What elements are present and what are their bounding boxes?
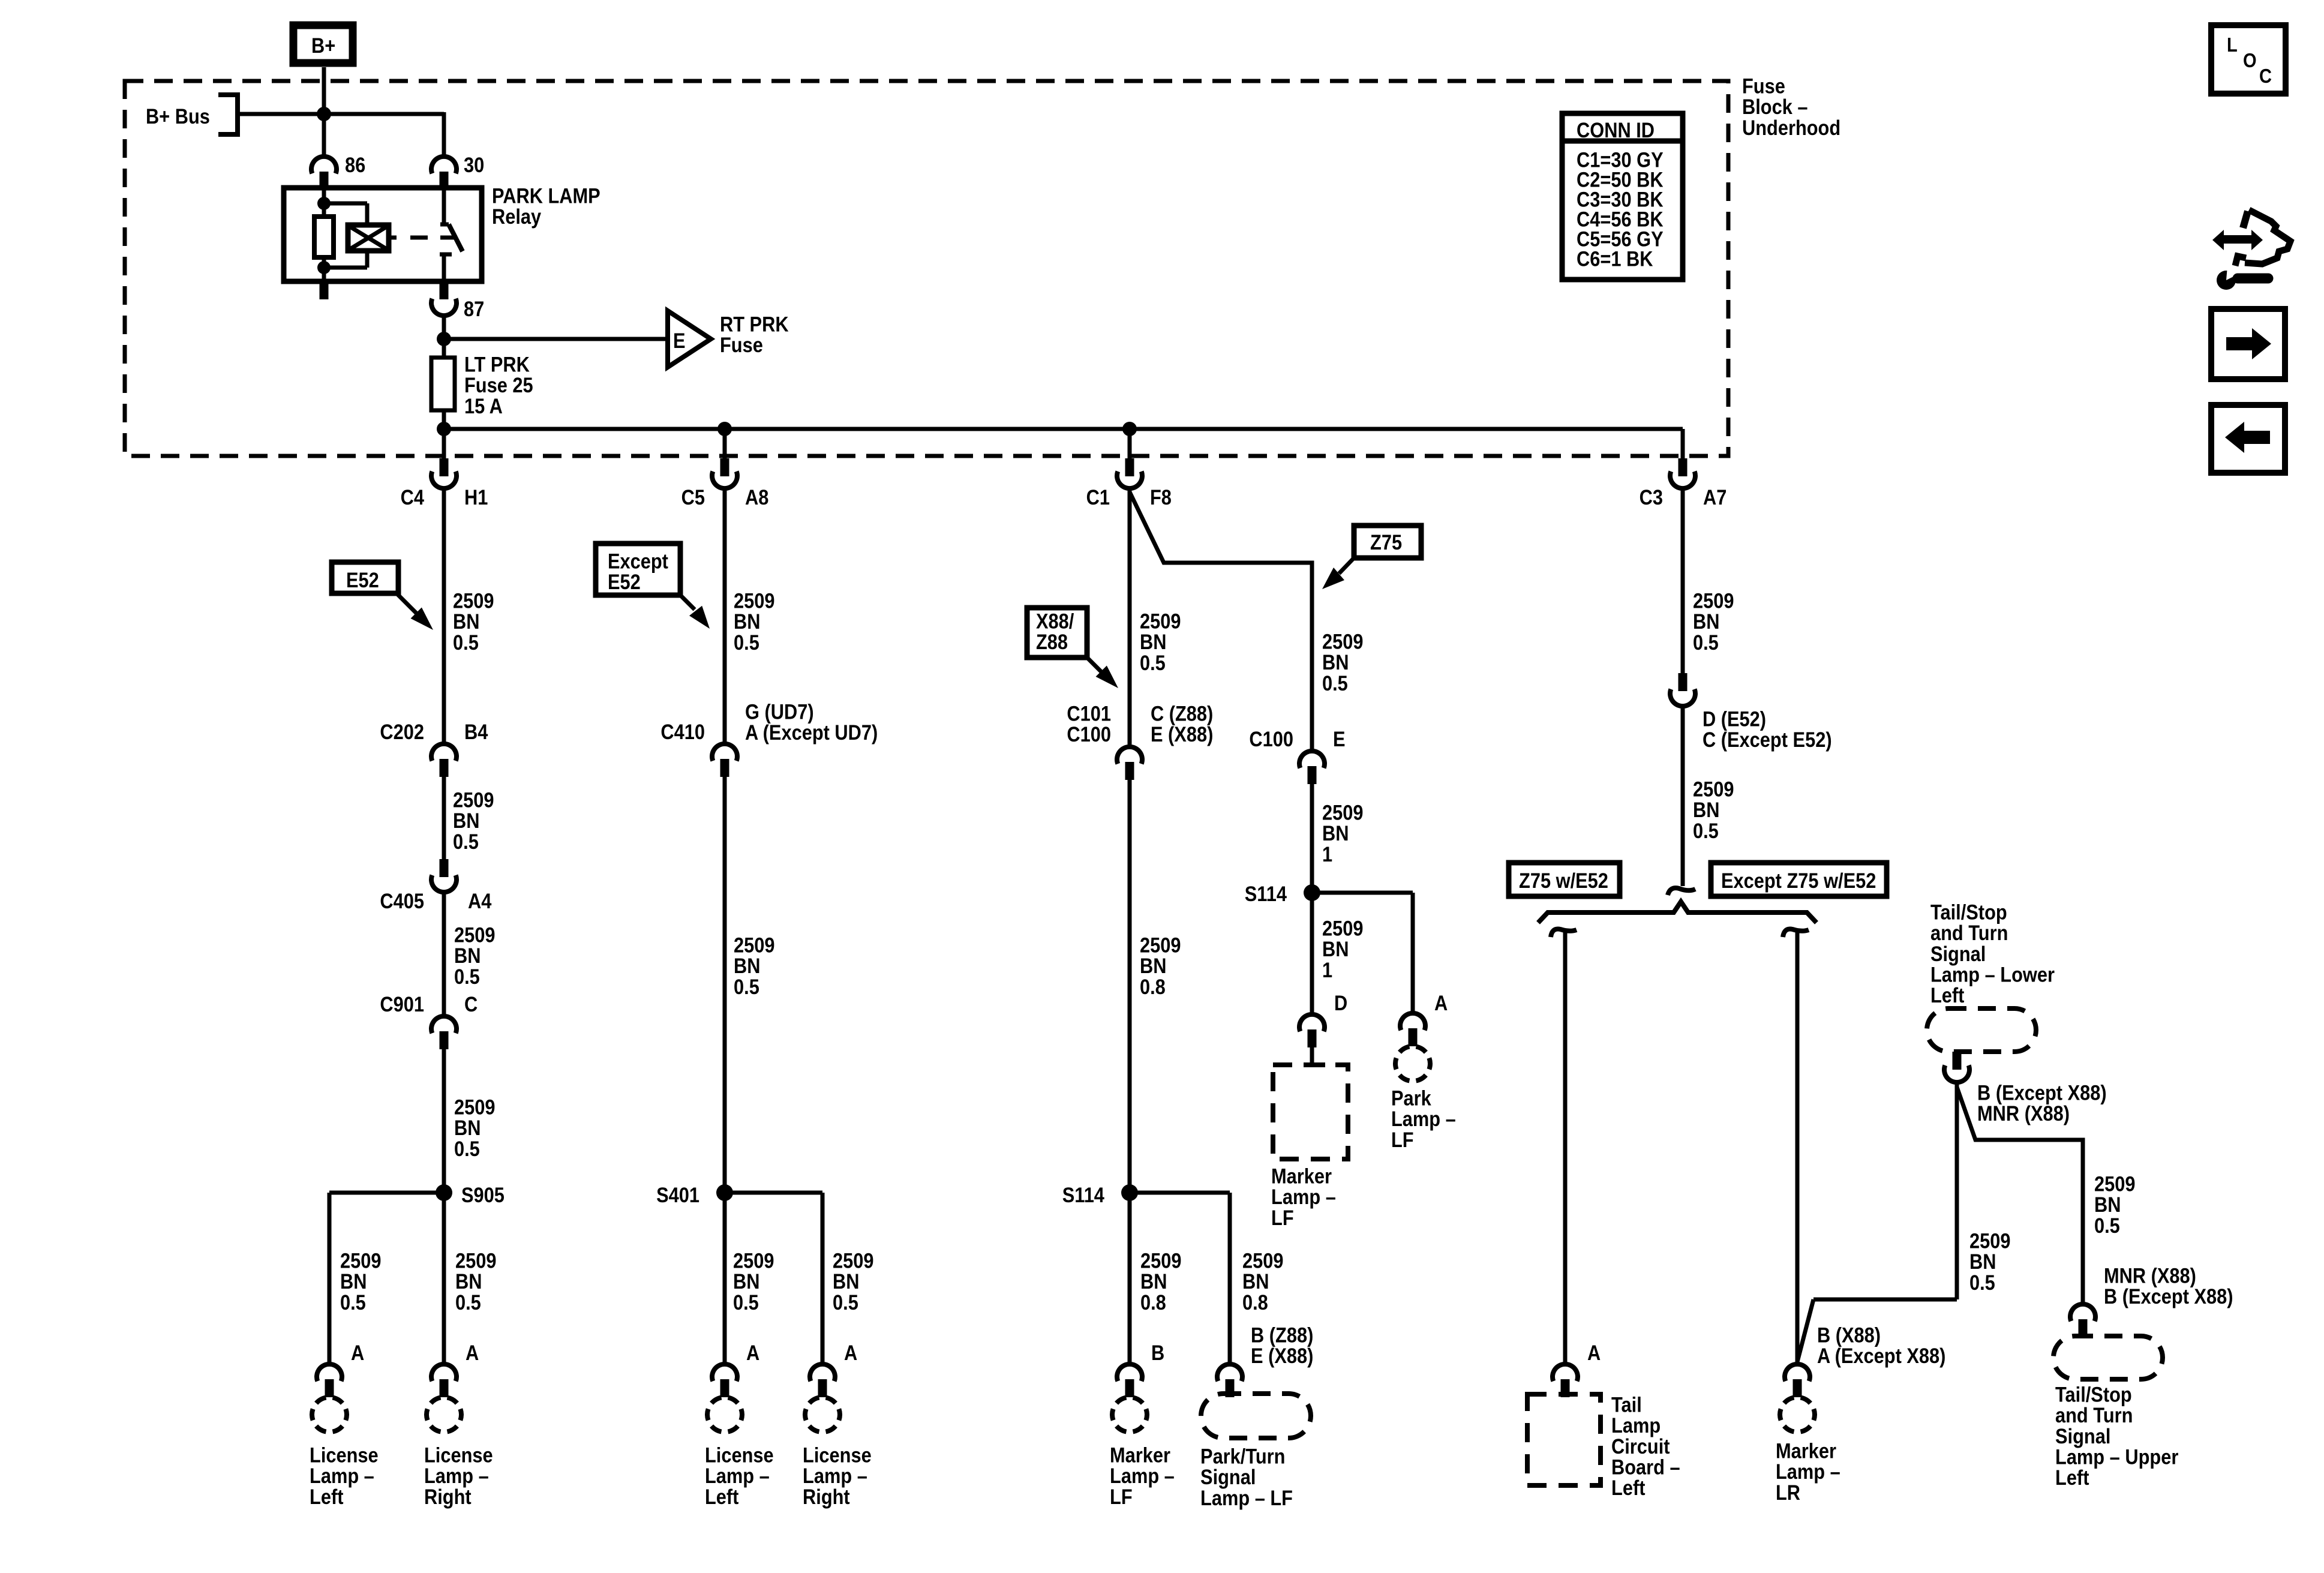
PARK LAMP Relay label (492, 184, 600, 229)
marker lamp LF terminal B (1112, 1341, 1164, 1431)
svg-text:BN: BN (453, 610, 479, 633)
wire S114 first right branch (1312, 893, 1413, 1012)
svg-text:G (UD7): G (UD7) (745, 700, 814, 724)
svg-text:C101: C101 (1067, 702, 1111, 725)
svg-text:D: D (1334, 991, 1347, 1014)
prev page left arrow icon (2211, 405, 2285, 473)
connector C4 label (401, 485, 488, 509)
park/turn signal lamp LF labels (1251, 1323, 1313, 1368)
wire C1 exit (1128, 429, 1132, 460)
svg-text:BN: BN (1242, 1269, 1269, 1293)
svg-text:BN: BN (734, 610, 760, 633)
svg-text:BN: BN (1693, 610, 1719, 633)
svg-text:C: C (2259, 65, 2272, 87)
wire C4 exit (442, 429, 446, 460)
svg-text:Park: Park (1391, 1086, 1431, 1110)
X88/Z88 option box (1027, 608, 1087, 658)
tail lamp circuit board dashed box (1527, 1394, 1601, 1485)
wire bus to relay pin 30 (442, 112, 446, 157)
svg-text:0.5: 0.5 (1693, 819, 1719, 842)
svg-text:Fuse: Fuse (1742, 74, 1785, 98)
svg-text:C3: C3 (1640, 485, 1663, 509)
svg-text:Lamp – LF: Lamp – LF (1200, 1486, 1293, 1509)
svg-text:S114: S114 (1245, 882, 1287, 905)
svg-text:0.5: 0.5 (1693, 631, 1719, 654)
wire label 2509 BN 0.5 seg2 (453, 788, 494, 854)
svg-text:E52: E52 (608, 570, 641, 593)
svg-text:and Turn: and Turn (2055, 1403, 2133, 1427)
connector C100 E (1299, 751, 1325, 784)
tail/stop upper left lamp body (2053, 1336, 2163, 1379)
Marker Lamp - LR label (1776, 1439, 1840, 1505)
svg-text:BN: BN (1322, 937, 1349, 960)
wire S905 left branch (329, 1193, 444, 1362)
svg-text:0.8: 0.8 (1140, 1290, 1166, 1314)
wire option right to marker LR (1795, 930, 1800, 1362)
svg-text:B4: B4 (464, 720, 488, 743)
wire S114 down branch (1128, 1193, 1132, 1362)
svg-text:License: License (424, 1443, 493, 1467)
svg-text:Signal: Signal (1930, 942, 1986, 965)
Park/Turn Signal Lamp - LF label (1200, 1445, 1293, 1510)
junction dot fuse bus (437, 422, 451, 436)
B+ Bus bracket (218, 95, 238, 134)
terminal D label (1334, 991, 1347, 1014)
tail board terminal A label (1587, 1341, 1601, 1364)
park/turn signal lamp LF terminal (1217, 1364, 1242, 1397)
svg-text:B+: B+ (311, 34, 335, 57)
Z75 w/E52 label box (1509, 863, 1620, 896)
wire C5 branch upper (723, 491, 727, 742)
License Lamp - Right 2 label (803, 1443, 872, 1509)
wire option left to tail board (1563, 930, 1568, 1362)
svg-text:2509: 2509 (2094, 1172, 2135, 1196)
svg-text:Z75 w/E52: Z75 w/E52 (1519, 869, 1608, 892)
svg-text:Except: Except (608, 550, 668, 573)
tail/stop lower left pin bar (1953, 1052, 1962, 1070)
wire label 2509 BN 0.5 left lamp (340, 1249, 381, 1314)
wire label 2509 BN 0.5 z75 (1322, 630, 1363, 695)
license lamp right terminal A (427, 1341, 479, 1431)
svg-text:87: 87 (464, 297, 484, 320)
option split brace (1538, 902, 1816, 923)
svg-text:PARK LAMP: PARK LAMP (492, 184, 600, 208)
svg-text:X88/: X88/ (1036, 610, 1074, 633)
svg-text:0.5: 0.5 (1969, 1271, 1995, 1294)
park/turn signal lamp LF body (1201, 1394, 1311, 1438)
connector C5 label (681, 485, 769, 509)
wire label 2509 BN 0.8 c1 seg2 (1140, 933, 1181, 999)
relay pin 87 connector arc (431, 299, 457, 316)
svg-text:Board –: Board – (1611, 1455, 1680, 1479)
svg-text:Underhood: Underhood (1742, 116, 1840, 139)
svg-text:BN: BN (1140, 1269, 1167, 1293)
wire S114 first down branch (1310, 893, 1314, 1012)
wire C4 branch upper (442, 491, 446, 742)
splice S401 (656, 1183, 733, 1206)
svg-text:BN: BN (733, 1269, 759, 1293)
relay switch blade (449, 224, 463, 251)
svg-text:Signal: Signal (1200, 1465, 1256, 1488)
connector C101 C100 labels (1067, 702, 1213, 746)
wire S401 down branch (723, 1193, 727, 1362)
svg-text:E: E (1333, 727, 1346, 751)
Except E52 arrow (680, 595, 710, 629)
svg-text:2509: 2509 (733, 1249, 774, 1272)
tail/stop lower left lamp body (1927, 1008, 2036, 1052)
relay pin 87 bar (440, 281, 449, 299)
svg-text:BN: BN (1969, 1250, 1996, 1273)
wire label 2509 BN 0.5 c3 seg2 (1693, 778, 1734, 843)
wire label 2509 BN 0.5 c1 seg1 (1140, 610, 1181, 675)
Z75 arrow (1322, 558, 1354, 589)
svg-text:Except Z75 w/E52: Except Z75 w/E52 (1721, 869, 1876, 892)
svg-text:Left: Left (1611, 1476, 1645, 1499)
svg-text:LT PRK: LT PRK (464, 353, 530, 376)
svg-text:Marker: Marker (1110, 1443, 1170, 1467)
svg-text:Signal: Signal (2055, 1424, 2110, 1448)
svg-text:E (X88): E (X88) (1251, 1344, 1313, 1367)
connector C100 E labels (1249, 727, 1345, 751)
svg-text:C100: C100 (1249, 727, 1293, 751)
svg-text:B (Except X88): B (Except X88) (1977, 1081, 2107, 1104)
svg-text:MNR (X88): MNR (X88) (1977, 1101, 2070, 1125)
svg-text:D (E52): D (E52) (1703, 707, 1766, 731)
marker LR labels (1817, 1323, 1945, 1368)
svg-text:BN: BN (2094, 1193, 2121, 1216)
svg-text:Tail/Stop: Tail/Stop (1930, 900, 2007, 924)
svg-text:2509: 2509 (455, 1249, 496, 1272)
svg-text:Relay: Relay (492, 205, 542, 228)
terminal D connector (1299, 1014, 1325, 1047)
junction dot C5 branch (717, 422, 732, 436)
park lamp LF terminal connector (1400, 1013, 1425, 1046)
svg-text:S905: S905 (461, 1183, 505, 1206)
relay coil wire from pin 86 (322, 188, 326, 217)
relay switch lower contact (440, 254, 452, 281)
svg-text:BN: BN (1693, 798, 1719, 821)
svg-text:Left: Left (705, 1485, 738, 1508)
svg-text:C4: C4 (401, 485, 425, 509)
connector C405 A4 labels (380, 889, 492, 912)
svg-text:A8: A8 (745, 485, 768, 509)
connector C202 B4 labels (380, 720, 488, 743)
svg-text:BN: BN (453, 809, 479, 832)
svg-text:S401: S401 (656, 1183, 699, 1206)
svg-text:License: License (803, 1443, 872, 1467)
svg-text:Lamp –: Lamp – (424, 1464, 489, 1487)
relay coil wire lower (322, 257, 326, 281)
svg-text:C100: C100 (1067, 722, 1111, 746)
connector C3 A7 bar (1679, 458, 1688, 476)
wire pin 87 down (442, 318, 446, 358)
License Lamp - Left label (310, 1443, 379, 1509)
svg-text:Block –: Block – (1742, 95, 1808, 118)
X88/Z88 arrow (1087, 658, 1118, 688)
svg-text:0.5: 0.5 (733, 1290, 759, 1314)
svg-text:LR: LR (1776, 1481, 1800, 1504)
LT PRK fuse symbol (431, 358, 455, 410)
svg-text:Lamp: Lamp (1611, 1413, 1661, 1437)
splice S114 second (1062, 1183, 1138, 1206)
svg-text:2509: 2509 (1322, 630, 1363, 653)
wire label 2509 BN 0.5 seg3 (454, 923, 495, 989)
connector C1 F8 arc (1117, 472, 1142, 488)
svg-text:Right: Right (803, 1485, 850, 1508)
svg-text:Left: Left (1930, 983, 1964, 1007)
svg-text:C410: C410 (660, 720, 705, 743)
wire label 2509 BN 0.5 seg1 (453, 589, 494, 655)
relay coil junction dot top (317, 197, 331, 210)
svg-text:Z88: Z88 (1036, 630, 1068, 653)
fuse block underhood dashed border (125, 81, 1728, 456)
svg-text:S114: S114 (1062, 1183, 1105, 1206)
marker lamp LR terminal (1785, 1364, 1810, 1397)
vehicle service icon (2212, 210, 2290, 290)
Fuse Block - Underhood label (1742, 74, 1840, 140)
relay solenoid coil (348, 225, 389, 251)
PARK LAMP relay box (284, 188, 482, 281)
svg-text:0.5: 0.5 (833, 1290, 858, 1314)
connector D E52 C Except E52 (1670, 673, 1695, 706)
svg-text:LF: LF (1391, 1128, 1414, 1151)
svg-text:Lamp –: Lamp – (803, 1464, 867, 1487)
connector C202 B4 (431, 744, 457, 777)
relay pin 85 stub bar (320, 281, 329, 299)
wire C1 branch upper (1128, 491, 1132, 745)
pin 87 label (464, 297, 484, 320)
svg-text:2509: 2509 (1322, 801, 1363, 824)
svg-text:Park/Turn: Park/Turn (1200, 1445, 1285, 1468)
LT PRK Fuse 25 15A label (464, 353, 533, 418)
wire C405 to C901 (442, 894, 446, 1014)
relay switch wire top (440, 188, 449, 224)
svg-text:1: 1 (1322, 842, 1332, 866)
svg-text:Lamp –: Lamp – (1776, 1460, 1840, 1483)
svg-text:and Turn: and Turn (1930, 921, 2008, 944)
connector C410 (712, 744, 737, 777)
svg-text:F8: F8 (1150, 485, 1172, 509)
wire S401 right branch (725, 1193, 822, 1362)
svg-text:Marker: Marker (1776, 1439, 1836, 1463)
relay resistor (314, 217, 334, 257)
svg-text:C5: C5 (681, 485, 705, 509)
svg-text:2509: 2509 (833, 1249, 873, 1272)
svg-text:2509: 2509 (734, 589, 774, 613)
svg-text:BN: BN (1140, 954, 1166, 977)
svg-text:A: A (844, 1341, 857, 1364)
svg-text:Lamp –: Lamp – (1271, 1185, 1336, 1208)
svg-text:0.5: 0.5 (1322, 671, 1348, 695)
svg-text:CONN ID: CONN ID (1577, 118, 1655, 142)
svg-text:BN: BN (340, 1269, 367, 1293)
wire label 2509 BN 0.5 right lamp (455, 1249, 496, 1314)
option split wire end curl (1668, 888, 1695, 895)
CONN ID table (1562, 113, 1683, 280)
left option hook (1551, 929, 1577, 937)
svg-text:0.5: 0.5 (340, 1290, 366, 1314)
tail lamp circuit board terminal (1553, 1364, 1578, 1397)
connector C901 C labels (380, 992, 478, 1016)
svg-text:15 A: 15 A (464, 394, 503, 418)
connector C3 label (1640, 485, 1727, 509)
svg-text:L: L (2227, 34, 2238, 56)
wire label 2509 BN 0.5 lowerleft (1969, 1229, 2010, 1295)
svg-text:Tail/Stop: Tail/Stop (2055, 1383, 2132, 1406)
junction dot C1 branch (1122, 422, 1137, 436)
svg-text:BN: BN (1322, 650, 1349, 674)
svg-text:H1: H1 (464, 485, 488, 509)
Tail Lamp Circuit Board - Left label (1611, 1393, 1680, 1500)
wire C101 to S114 (1128, 780, 1132, 1193)
E52 option box (332, 562, 398, 593)
E52 arrow (397, 593, 433, 630)
svg-text:E (X88): E (X88) (1151, 722, 1213, 746)
wire label 2509 BN 0.5 mnr (2094, 1172, 2135, 1238)
connector C405 A4 (431, 859, 457, 892)
svg-text:A: A (1434, 991, 1448, 1014)
wire label 2509 BN 1 z75 seg3 (1322, 917, 1363, 982)
svg-text:B (X88): B (X88) (1817, 1323, 1881, 1347)
wire C3 exit (1681, 429, 1685, 460)
wire label 2509 BN 0.5 c5 seg2 (734, 933, 774, 999)
wire C901 to S905 (442, 1049, 446, 1193)
svg-text:BN: BN (454, 944, 481, 967)
wire C3 branch upper (1681, 491, 1685, 676)
svg-text:Fuse 25: Fuse 25 (464, 373, 533, 397)
relay coil branch wires (324, 203, 367, 268)
svg-text:Marker: Marker (1271, 1164, 1332, 1188)
svg-text:C6=1 BK: C6=1 BK (1577, 247, 1653, 271)
svg-text:0.5: 0.5 (734, 631, 759, 654)
svg-text:Lamp – Upper: Lamp – Upper (2055, 1445, 2178, 1469)
marker lamp LR dashed circle (1780, 1398, 1815, 1432)
connector C410 labels (660, 700, 878, 745)
RT PRK Fuse label (720, 313, 789, 357)
svg-text:Lamp –: Lamp – (1110, 1464, 1175, 1487)
svg-text:A: A (351, 1341, 364, 1364)
svg-text:2509: 2509 (1693, 589, 1734, 613)
splice S114 first (1245, 882, 1320, 905)
wire C202 to C405 (442, 777, 446, 862)
svg-text:2509: 2509 (453, 788, 494, 812)
connector C5 A8 arc (712, 472, 737, 488)
wire label 2509 BN 0.8 marker (1140, 1249, 1181, 1314)
MNR labels (2104, 1264, 2233, 1308)
Marker Lamp - LF label (1110, 1443, 1175, 1509)
wire lower left down (1955, 1085, 1959, 1299)
svg-text:A (Except UD7): A (Except UD7) (745, 721, 878, 744)
wire lower left horizontal to marker LR (1797, 1299, 1957, 1362)
svg-text:BN: BN (1322, 821, 1349, 845)
svg-text:0.5: 0.5 (455, 1290, 481, 1314)
svg-text:0.8: 0.8 (1242, 1290, 1268, 1314)
svg-text:Z75: Z75 (1370, 530, 1402, 554)
Marker Lamp - LF box label (1271, 1164, 1336, 1230)
LOC box icon (2211, 25, 2286, 94)
svg-text:A: A (1587, 1341, 1601, 1364)
svg-text:O: O (2243, 49, 2257, 71)
svg-text:Fuse: Fuse (720, 333, 763, 356)
License Lamp - Right label (424, 1443, 493, 1509)
svg-text:E52: E52 (346, 568, 379, 592)
Park Lamp - LF label (1391, 1086, 1456, 1152)
svg-text:1: 1 (1322, 958, 1332, 981)
wire B+ to bus (322, 67, 326, 114)
svg-text:BN: BN (833, 1269, 859, 1293)
svg-text:0.5: 0.5 (453, 631, 479, 654)
connector C901 C (431, 1016, 457, 1049)
wire C1 diagonal to Z75 branch (1130, 492, 1312, 751)
License Lamp - Left 2 label (705, 1443, 774, 1509)
connector C1 F8 bar (1125, 458, 1134, 476)
Z75 option box (1354, 526, 1421, 558)
connector C4 H1 bar (440, 458, 449, 476)
junction dot RT PRK branch (437, 332, 451, 346)
pin 86 label (345, 153, 365, 176)
connector C4 H1 arc (431, 472, 457, 488)
Except Z75 w/E52 label box (1711, 863, 1887, 896)
svg-text:A: A (746, 1341, 759, 1364)
park lamp LF dashed circle (1395, 1047, 1430, 1081)
tail/stop lower left labels (1977, 1081, 2107, 1125)
svg-text:2509: 2509 (1140, 610, 1181, 633)
svg-text:BN: BN (734, 954, 760, 977)
wire label 2509 BN 1 z75 seg2 (1322, 801, 1363, 866)
wire label 2509 BN 0.5 left lamp2 (733, 1249, 774, 1314)
svg-text:0.8: 0.8 (1140, 975, 1166, 998)
wire label 2509 BN 0.5 c5 seg1 (734, 589, 774, 655)
svg-text:BN: BN (454, 1116, 481, 1139)
svg-text:License: License (705, 1443, 774, 1467)
wire S114 right branch to park/turn (1130, 1193, 1230, 1362)
svg-text:MNR (X88): MNR (X88) (2104, 1264, 2196, 1287)
wire bus corner down to C3 (1681, 429, 1685, 460)
svg-text:B (Except X88): B (Except X88) (2104, 1284, 2233, 1308)
relay pin 30 connector (431, 157, 457, 190)
svg-text:0.5: 0.5 (1140, 651, 1166, 674)
wire label 2509 BN 0.8 parkturn (1242, 1249, 1283, 1314)
svg-text:C405: C405 (380, 889, 424, 912)
MNR terminal connector (2070, 1304, 2095, 1337)
svg-text:B (Z88): B (Z88) (1251, 1323, 1313, 1347)
wire S905 down branch (442, 1193, 446, 1362)
splice S905 (436, 1183, 505, 1206)
svg-text:A7: A7 (1703, 485, 1727, 509)
svg-text:C: C (464, 992, 478, 1016)
svg-text:Lamp –: Lamp – (705, 1464, 770, 1487)
svg-text:BN: BN (455, 1269, 482, 1293)
svg-text:C (Except E52): C (Except E52) (1703, 728, 1832, 751)
license lamp left terminal A (312, 1341, 364, 1431)
svg-text:LF: LF (1271, 1206, 1294, 1229)
wire to RT PRK fuse triangle (444, 337, 668, 341)
connector C101 C100 (1117, 747, 1142, 780)
svg-text:30: 30 (464, 153, 484, 176)
connector C1 label (1086, 485, 1172, 509)
svg-text:LF: LF (1110, 1485, 1133, 1508)
svg-text:2509: 2509 (454, 1095, 495, 1119)
B+ power symbol box (293, 25, 353, 63)
wire lower left to MNR branch (1957, 1087, 2083, 1302)
Tail/Stop Lower Left label (1930, 900, 2055, 1007)
wire C100 E to S114 (1310, 784, 1314, 893)
Except E52 option box (596, 544, 680, 595)
svg-text:B+ Bus: B+ Bus (146, 104, 210, 128)
svg-text:Lamp –: Lamp – (1391, 1107, 1456, 1130)
marker lamp LF dashed box (1273, 1065, 1348, 1159)
svg-text:Tail: Tail (1611, 1393, 1642, 1416)
